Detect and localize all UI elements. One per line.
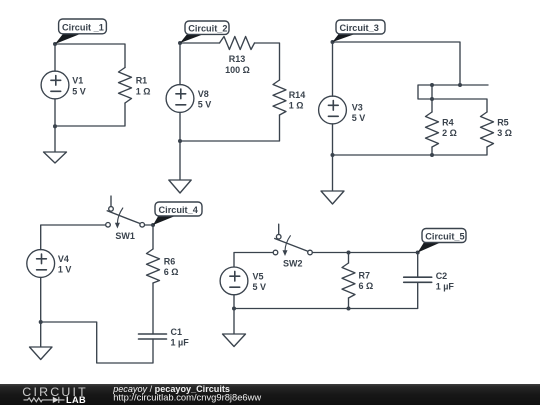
- svg-text:R7: R7: [359, 271, 371, 281]
- svg-text:V3: V3: [352, 103, 363, 113]
- svg-text:SW1: SW1: [115, 231, 135, 241]
- svg-text:1 V: 1 V: [58, 265, 72, 275]
- svg-text:1 Ω: 1 Ω: [289, 100, 304, 110]
- svg-text:5 V: 5 V: [72, 86, 86, 96]
- svg-text:2 Ω: 2 Ω: [442, 128, 457, 138]
- svg-text:R1: R1: [136, 76, 148, 86]
- svg-text:http://circuitlab.com/cnvg9r8j: http://circuitlab.com/cnvg9r8j8e6ww: [113, 392, 261, 403]
- svg-text:V5: V5: [253, 271, 264, 281]
- svg-text:6 Ω: 6 Ω: [359, 281, 374, 291]
- svg-text:1 µF: 1 µF: [436, 281, 455, 291]
- svg-text:SW2: SW2: [283, 259, 303, 269]
- svg-text:V1: V1: [72, 76, 83, 86]
- svg-text:5 V: 5 V: [253, 282, 267, 292]
- svg-text:1 µF: 1 µF: [171, 338, 190, 348]
- svg-text:R14: R14: [289, 90, 306, 100]
- svg-text:5 V: 5 V: [352, 113, 366, 123]
- svg-text:Circuit_3: Circuit_3: [340, 23, 379, 33]
- svg-text:3 Ω: 3 Ω: [497, 128, 512, 138]
- svg-text:1 Ω: 1 Ω: [136, 86, 151, 96]
- svg-text:R6: R6: [164, 256, 176, 266]
- svg-text:LAB: LAB: [66, 395, 86, 405]
- svg-text:Circuit_2: Circuit_2: [188, 23, 227, 33]
- svg-text:Circuit _1: Circuit _1: [62, 23, 104, 33]
- svg-text:5 V: 5 V: [198, 100, 212, 110]
- svg-text:Circuit_4: Circuit_4: [159, 205, 199, 215]
- svg-text:R13: R13: [229, 54, 246, 64]
- svg-text:R5: R5: [497, 118, 509, 128]
- svg-text:C2: C2: [436, 271, 448, 281]
- svg-text:6 Ω: 6 Ω: [164, 267, 179, 277]
- svg-text:V4: V4: [58, 254, 69, 264]
- svg-text:V8: V8: [198, 89, 209, 99]
- svg-text:C1: C1: [171, 327, 183, 337]
- svg-text:100 Ω: 100 Ω: [225, 65, 250, 75]
- svg-text:R4: R4: [442, 118, 454, 128]
- svg-text:Circuit_5: Circuit_5: [425, 231, 464, 241]
